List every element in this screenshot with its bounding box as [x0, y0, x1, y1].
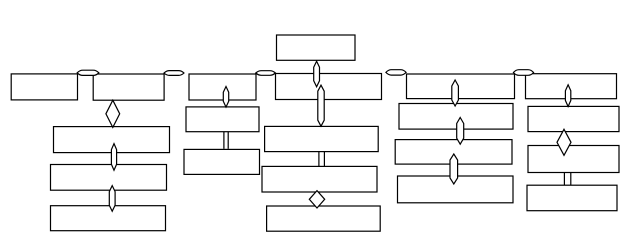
double-line connector right-col 2 to 3: [563, 173, 565, 186]
box row2-4 (center wide): [276, 74, 382, 100]
ellipse connector 3: [256, 71, 276, 76]
double-line connector center-col 1 to 2: [318, 152, 320, 167]
lens connector root to center wide: [314, 61, 320, 87]
box midright-col 1: [399, 104, 513, 130]
box left-col 2: [51, 165, 167, 191]
box right-col 2: [528, 146, 619, 173]
box right-col 1: [528, 106, 619, 131]
box midleft-col 2: [184, 149, 260, 174]
lens connector center wide to center-col 1: [318, 85, 324, 126]
lens connector row2-5 to midright-col 1: [452, 80, 459, 106]
lens connector row2-6 to right-col 1: [565, 85, 570, 107]
lens connector midright-col 1 to 2: [457, 118, 464, 145]
ellipse connector 4: [386, 70, 406, 75]
box row2-2: [93, 74, 164, 100]
double-line connector midleft-col 1 to 2: [223, 132, 225, 149]
lens connector left-col 2 to 3: [109, 186, 115, 212]
ellipse connector 1: [77, 70, 99, 75]
box left-col 1: [54, 127, 170, 153]
box left-col 3: [51, 206, 166, 231]
box top (root): [277, 35, 356, 60]
diamond connector row2-2 to left-col 1: [106, 100, 120, 127]
box midright-col 2: [395, 140, 512, 165]
lens connector left-col 1 to 2: [111, 144, 116, 171]
box midleft-col 1: [186, 107, 259, 132]
diamond connector center-col 2 to 3: [309, 191, 324, 208]
box row2-5: [407, 74, 515, 99]
diamond connector right-col 1 to 2: [557, 129, 571, 155]
box row2-1 (far left): [11, 74, 77, 100]
box row2-6 (far right): [526, 74, 617, 99]
box row2-3: [189, 74, 256, 100]
box center-col 1: [265, 126, 379, 151]
box right-col 3: [527, 185, 617, 211]
box center-col 2: [262, 166, 377, 192]
ellipse connector 2: [164, 71, 184, 76]
ellipse connector 5: [513, 70, 533, 76]
box center-col 3: [267, 206, 381, 231]
lens connector row2-3 to midleft-col 1: [223, 87, 228, 108]
lens connector midright-col 2 to 3: [450, 154, 458, 184]
box midright-col 3: [398, 176, 514, 203]
